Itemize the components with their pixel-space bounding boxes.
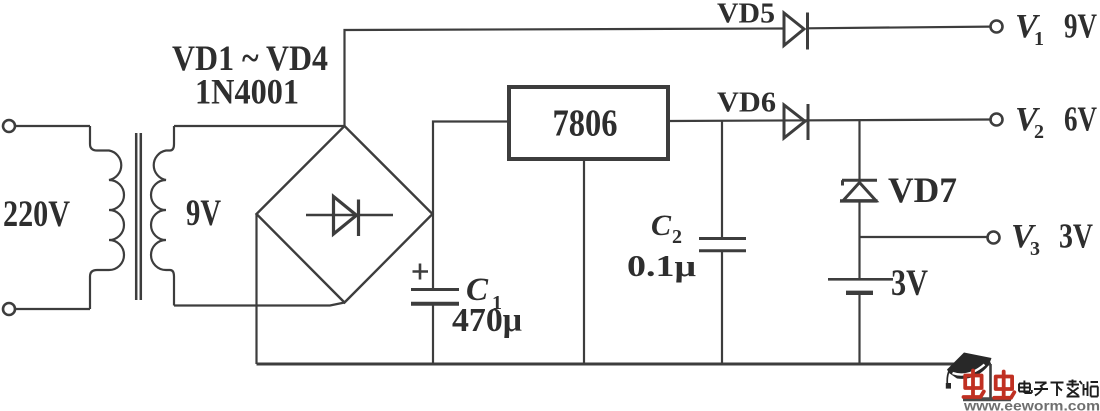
zener VD7 base bar [840, 199, 878, 202]
svg-text:2: 2 [672, 226, 682, 248]
svg-text:3V: 3V [891, 263, 928, 304]
terminal V3 [988, 232, 1000, 244]
watermark logo ground bar [963, 397, 1011, 401]
bottom ground rail [257, 363, 992, 366]
regulator U1 7806 box [509, 87, 668, 159]
diode VD5 cathode bar [806, 13, 809, 50]
wire riser bridge top to V1 rail and rail to VD5 [345, 29, 785, 127]
svg-text:7806: 7806 [553, 103, 618, 145]
svg-text:1N4001: 1N4001 [195, 72, 299, 112]
capacitor C1 plus plate [411, 288, 459, 291]
svg-text:VD6: VD6 [717, 87, 776, 119]
svg-text:9V: 9V [186, 192, 221, 233]
wire battery to bottom rail [858, 293, 860, 364]
terminal V2 [991, 114, 1003, 126]
watermark text dianzi xiazaizhan (black, drawn strokes) [1019, 380, 1098, 397]
svg-text:2: 2 [1034, 121, 1044, 143]
wire C2 tap from V2 line [721, 121, 723, 237]
wire node V3 to terminal [860, 236, 988, 238]
svg-text:VD7: VD7 [888, 170, 957, 210]
capacitor C2 bottom plate [699, 249, 746, 252]
transformer secondary winding [151, 126, 174, 306]
transformer core [136, 133, 141, 300]
wire VD5 to terminal V1 [808, 27, 991, 29]
terminal input top [3, 120, 15, 132]
zener VD7 triangle [843, 183, 876, 201]
svg-text:0.1μ: 0.1μ [627, 248, 697, 283]
transformer T1 primary winding [90, 126, 124, 309]
capacitor C2 top plate [699, 237, 746, 240]
svg-text:220V: 220V [3, 193, 70, 234]
bridge inner diode cathode bar [357, 200, 360, 237]
watermark logo graduation cap [946, 353, 992, 389]
svg-text:www.eeworm.com: www.eeworm.com [963, 399, 1100, 411]
wire secondary top to bridge [174, 125, 345, 127]
diode VD6 cathode bar [807, 104, 810, 140]
svg-text:VD5: VD5 [717, 0, 775, 30]
wire VD7 to V3 node and battery [858, 201, 860, 278]
wire rail down to logo ground [989, 364, 992, 398]
wire input bottom to transformer [16, 308, 91, 310]
bridge rectifier VD1-VD4 diamond [257, 126, 433, 303]
wire 7806 ground pin to bottom rail [583, 161, 585, 364]
diode VD5 triangle [784, 13, 804, 46]
wire bridge right corner up to 7806 input [433, 122, 507, 215]
bridge inner diode triangle [334, 197, 357, 235]
wire input top to transformer [16, 125, 91, 127]
svg-text:9V: 9V [1064, 7, 1097, 46]
bridge inner diode line [306, 214, 393, 216]
terminal V1 [991, 21, 1003, 33]
svg-text:3V: 3V [1059, 217, 1093, 256]
svg-text:C: C [651, 209, 672, 242]
watermark chongchong characters (red) [964, 371, 1015, 398]
wire bridge left corner to ground rail [255, 214, 257, 364]
wire 7806 output to terminal V2 [670, 120, 990, 122]
battery GB top plate [828, 278, 893, 281]
svg-text:6V: 6V [1064, 100, 1097, 139]
battery GB bottom plate [846, 291, 873, 295]
zener VD7 cathode bar [842, 180, 877, 185]
wire VD7 tap from V2 line [858, 121, 860, 179]
capacitor C1 minus plate [411, 302, 459, 306]
wire C1 to bottom rail [432, 306, 434, 365]
diode VD6 triangle [784, 105, 805, 138]
wire secondary bottom to bridge bottom corner [174, 303, 345, 306]
wire C2 to bottom rail [721, 251, 723, 364]
svg-text:470μ: 470μ [452, 302, 522, 339]
terminal input bottom [3, 303, 15, 315]
C1 polarity plus sign [413, 264, 429, 280]
svg-text:3: 3 [1030, 238, 1040, 260]
svg-text:1: 1 [1034, 28, 1044, 50]
wire bridge right corner down to C1 [432, 214, 434, 288]
